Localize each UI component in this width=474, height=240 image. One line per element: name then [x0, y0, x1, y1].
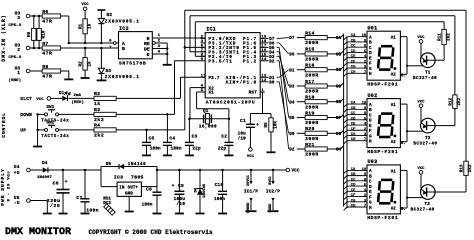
svg-text:CF: CF — [351, 128, 356, 132]
svg-text:C1: C1 — [240, 118, 246, 124]
svg-text:D0: D0 — [269, 81, 275, 85]
svg-text:8VCC: 8VCC — [269, 175, 273, 184]
svg-text:T1: T1 — [425, 70, 431, 75]
svg-text:CD: CD — [336, 86, 342, 90]
svg-text:R21: R21 — [305, 142, 315, 148]
svg-text:VCC: VCC — [247, 155, 255, 159]
svg-text:1N4007: 1N4007 — [37, 176, 53, 180]
svg-text:PWR SUPPLY: PWR SUPPLY — [0, 168, 6, 206]
svg-text:U03: U03 — [368, 159, 378, 165]
svg-text:AIN+/P1.0: AIN+/P1.0 — [226, 81, 257, 86]
svg-text:-U: -U — [14, 200, 20, 206]
svg-text:D1: D1 — [59, 92, 65, 96]
svg-text:D5: D5 — [289, 117, 295, 121]
svg-text:C4: C4 — [169, 135, 175, 141]
svg-text:R10: R10 — [43, 30, 47, 38]
svg-text:CF: CF — [351, 194, 356, 198]
svg-text:2k2: 2k2 — [468, 164, 473, 172]
svg-text:CC: CC — [351, 112, 356, 116]
svg-text:10k: 10k — [274, 121, 279, 129]
svg-text:CPK-3: CPK-3 — [9, 24, 22, 28]
svg-text:R6: R6 — [42, 9, 48, 15]
svg-text:IC3: IC3 — [114, 174, 124, 180]
svg-text:R18: R18 — [305, 95, 315, 101]
svg-text:6: 6 — [109, 40, 112, 44]
svg-text:CH: CH — [351, 205, 356, 209]
svg-text:R4: R4 — [94, 123, 100, 129]
svg-text:CC: CC — [336, 69, 342, 73]
svg-text:A2: A2 — [391, 141, 397, 145]
svg-text:+: + — [172, 184, 175, 189]
svg-text:IC1: IC1 — [206, 27, 216, 33]
svg-text:D1: D1 — [269, 77, 275, 81]
svg-text:RST: RST — [249, 91, 258, 96]
svg-text:SLCT: SLCT — [20, 96, 32, 102]
svg-text:100n: 100n — [142, 203, 153, 208]
svg-text:100n: 100n — [171, 147, 182, 152]
svg-text:UP: UP — [20, 128, 26, 134]
svg-text:200R: 200R — [305, 136, 319, 142]
svg-text:SW1: SW1 — [47, 106, 55, 110]
svg-text:/10: /10 — [176, 201, 185, 207]
svg-text:CD: CD — [351, 50, 356, 54]
svg-text:100n: 100n — [150, 147, 161, 152]
svg-text:R2: R2 — [94, 91, 100, 97]
svg-text:C6: C6 — [53, 181, 59, 187]
svg-text:GND: GND — [125, 193, 133, 197]
svg-text:D3: D3 — [289, 86, 295, 90]
svg-text:22p: 22p — [218, 147, 227, 152]
svg-text:D: D — [147, 52, 150, 58]
svg-text:CG: CG — [351, 66, 356, 70]
svg-text:CE: CE — [351, 189, 356, 193]
svg-text:200R: 200R — [305, 72, 319, 78]
svg-text:9: 9 — [201, 58, 204, 62]
svg-text:A2: A2 — [391, 207, 397, 211]
svg-text:15: 15 — [261, 53, 267, 57]
svg-text:1N4148: 1N4148 — [128, 163, 146, 167]
svg-text:D5: D5 — [106, 162, 112, 167]
svg-text:200R: 200R — [305, 57, 319, 63]
svg-text:20VCC: 20VCC — [247, 174, 251, 186]
svg-text:CH: CH — [336, 149, 342, 153]
svg-text:DOWN: DOWN — [20, 112, 32, 118]
svg-text:CE: CE — [351, 55, 356, 59]
svg-text:R20: R20 — [305, 126, 315, 132]
svg-text:10: 10 — [362, 102, 367, 106]
svg-text:16,000: 16,000 — [199, 123, 217, 129]
svg-text:R12: R12 — [449, 97, 453, 105]
svg-text:CE: CE — [351, 123, 356, 127]
svg-text:2mA: 2mA — [74, 94, 82, 98]
svg-text:C10: C10 — [215, 182, 224, 188]
svg-text:+: + — [256, 123, 259, 128]
svg-text:CH: CH — [351, 71, 356, 75]
svg-text:BC327-40: BC327-40 — [413, 77, 437, 81]
svg-text:A1: A1 — [391, 170, 397, 174]
svg-text:200R: 200R — [305, 120, 319, 126]
svg-text:IC2/P: IC2/P — [266, 189, 280, 195]
svg-text:D6: D6 — [194, 187, 198, 192]
svg-text:14: 14 — [261, 58, 267, 62]
svg-text:R8: R8 — [42, 64, 48, 70]
svg-text:1k: 1k — [88, 61, 93, 67]
svg-text:U4: U4 — [14, 164, 20, 170]
svg-text:3: 3 — [201, 40, 204, 44]
svg-text:D6: D6 — [269, 43, 275, 47]
svg-text:CC: CC — [351, 178, 356, 182]
svg-text:CD: CD — [351, 184, 356, 188]
svg-text:2: 2 — [17, 47, 20, 53]
svg-text:T3: T3 — [424, 202, 430, 207]
svg-text:5: 5 — [201, 89, 204, 93]
svg-text:CG: CG — [336, 133, 342, 137]
svg-text:+: + — [65, 180, 68, 185]
svg-text:P3.7: P3.7 — [208, 76, 219, 81]
svg-text:COPYRIGHT © 2000 CHD Elektrose: COPYRIGHT © 2000 CHD Elektroservis — [89, 229, 213, 236]
svg-text:C9: C9 — [178, 183, 184, 189]
svg-text:D2: D2 — [107, 13, 113, 18]
svg-text:IN: IN — [119, 186, 125, 190]
svg-text:RE: RE — [144, 41, 150, 47]
svg-text:D3: D3 — [269, 56, 275, 60]
svg-text:U01: U01 — [368, 25, 378, 31]
svg-text:C8: C8 — [146, 186, 152, 192]
svg-text:200R: 200R — [305, 40, 319, 46]
svg-text:100n: 100n — [86, 207, 98, 213]
svg-text:C7: C7 — [76, 195, 82, 201]
svg-text:CA: CA — [351, 34, 356, 38]
svg-text:Q1: Q1 — [203, 109, 209, 114]
svg-text:3: 3 — [17, 15, 20, 21]
svg-text:A1: A1 — [391, 104, 397, 108]
svg-text:2k2: 2k2 — [446, 33, 451, 41]
svg-text:D5: D5 — [269, 47, 275, 51]
svg-text:C3: C3 — [192, 133, 198, 139]
svg-text:CF: CF — [336, 117, 342, 121]
svg-text:A1: A1 — [391, 37, 397, 41]
svg-text:B: B — [122, 46, 125, 52]
svg-text:VCC: VCC — [291, 169, 299, 174]
svg-text:HS1: HS1 — [103, 197, 111, 201]
svg-text:10: 10 — [362, 168, 367, 172]
svg-text:D0: D0 — [289, 133, 295, 137]
svg-text:6.: 6. — [401, 75, 406, 79]
svg-text:CA: CA — [351, 168, 356, 172]
svg-text:ZX83V005.1: ZX83V005.1 — [105, 74, 140, 80]
svg-text:OUT+: OUT+ — [128, 186, 139, 190]
svg-text:HDSP-F201: HDSP-F201 — [367, 215, 398, 221]
svg-text:TACTS-24x: TACTS-24x — [41, 135, 69, 139]
svg-text:R17: R17 — [305, 79, 315, 85]
svg-text:200R: 200R — [305, 89, 319, 95]
svg-text:C5: C5 — [149, 135, 155, 141]
svg-text:R13: R13 — [460, 164, 464, 172]
svg-text:X1: X1 — [208, 91, 214, 96]
svg-text:R15: R15 — [305, 47, 315, 53]
svg-text:IC1/P: IC1/P — [244, 189, 258, 195]
svg-text:(RED): (RED) — [72, 100, 85, 105]
svg-text:2k2: 2k2 — [94, 117, 104, 123]
svg-text:C2: C2 — [221, 133, 227, 139]
svg-text:6.: 6. — [401, 208, 406, 212]
svg-text:U5: U5 — [14, 195, 20, 201]
svg-text:2k2: 2k2 — [457, 97, 462, 105]
svg-text:SW2: SW2 — [47, 121, 55, 125]
svg-text:R3: R3 — [94, 107, 100, 113]
svg-text:T2: T2 — [425, 136, 431, 141]
svg-text:P3.5/T1: P3.5/T1 — [208, 60, 232, 65]
svg-text:DE: DE — [144, 46, 150, 52]
svg-text:AT89C2051-20PU: AT89C2051-20PU — [206, 99, 256, 105]
svg-text:16: 16 — [261, 49, 267, 53]
svg-text:CA: CA — [351, 102, 356, 106]
svg-text:HDSP-F201: HDSP-F201 — [367, 149, 398, 155]
svg-text:+U: +U — [14, 170, 20, 176]
svg-text:2: 2 — [201, 36, 204, 40]
svg-text:7: 7 — [201, 49, 204, 53]
svg-text:H: H — [369, 206, 372, 211]
svg-text:D2: D2 — [269, 60, 275, 64]
svg-text:D3: D3 — [106, 69, 112, 74]
svg-text:CPK-3: CPK-3 — [9, 56, 22, 60]
svg-text:CA: CA — [336, 37, 342, 41]
svg-text:R5: R5 — [265, 122, 269, 128]
svg-text:7805: 7805 — [131, 174, 144, 180]
svg-text:R7: R7 — [42, 41, 48, 47]
svg-text:D4: D4 — [42, 161, 48, 166]
svg-text:R2: R2 — [79, 61, 83, 67]
svg-text:H: H — [369, 72, 372, 77]
svg-text:1: 1 — [17, 70, 20, 76]
svg-text:1k: 1k — [88, 23, 93, 29]
svg-text:10: 10 — [362, 34, 367, 38]
svg-text:CG: CG — [351, 199, 356, 203]
svg-text:BC327-40: BC327-40 — [413, 142, 437, 146]
svg-text:U02: U02 — [368, 93, 378, 99]
svg-text:/25: /25 — [50, 203, 60, 209]
svg-text:D2: D2 — [289, 149, 295, 153]
svg-text:/10: /10 — [238, 137, 246, 142]
svg-text:2k2: 2k2 — [94, 133, 104, 139]
svg-text:R14: R14 — [305, 30, 315, 36]
svg-text:D4: D4 — [269, 51, 275, 55]
svg-text:7: 7 — [109, 46, 112, 50]
svg-text:100n: 100n — [214, 197, 225, 202]
svg-text:200R: 200R — [305, 152, 319, 158]
svg-text:ZX83V005.1: ZX83V005.1 — [105, 18, 140, 24]
svg-text:D6: D6 — [289, 54, 295, 58]
svg-text:6.: 6. — [401, 142, 406, 146]
svg-text:47R: 47R — [42, 74, 52, 80]
svg-text:CD: CD — [351, 117, 356, 121]
svg-text:R16: R16 — [305, 63, 315, 69]
svg-text:IC2: IC2 — [119, 26, 129, 32]
svg-text:DMX MONITOR: DMX MONITOR — [5, 227, 71, 238]
svg-text:CONTROL: CONTROL — [1, 112, 7, 137]
svg-text:CE: CE — [336, 101, 342, 105]
svg-text:8: 8 — [201, 53, 204, 57]
svg-text:CB: CB — [351, 173, 356, 177]
svg-text:TACTS-24x: TACTS-24x — [41, 119, 69, 123]
svg-text:BC327-40: BC327-40 — [411, 209, 435, 213]
svg-text:22p: 22p — [192, 147, 201, 152]
svg-text:1N4148: 1N4148 — [203, 183, 207, 198]
svg-text:200R: 200R — [305, 104, 319, 110]
svg-text:8 - 20 Vdc: 8 - 20 Vdc — [7, 170, 12, 201]
svg-text:H: H — [369, 140, 372, 145]
svg-text:R19: R19 — [305, 110, 315, 116]
svg-text:P1.2: P1.2 — [243, 60, 257, 65]
svg-text:11: 11 — [201, 74, 207, 78]
svg-text:D4: D4 — [289, 101, 295, 105]
svg-text:DMX-IN (XLR): DMX-IN (XLR) — [1, 14, 7, 61]
svg-text:CG: CG — [351, 133, 356, 137]
svg-text:R1: R1 — [79, 23, 83, 29]
svg-text:A2: A2 — [391, 74, 397, 78]
svg-text:VCC: VCC — [36, 98, 44, 102]
svg-text:CB: CB — [351, 39, 356, 43]
svg-text:47R: 47R — [42, 51, 52, 57]
svg-text:1k: 1k — [94, 101, 101, 107]
svg-text:R9: R9 — [28, 31, 32, 37]
svg-text:CB: CB — [336, 53, 342, 57]
svg-text:CH: CH — [351, 138, 356, 142]
svg-text:SN75176B: SN75176B — [119, 60, 146, 66]
svg-text:CB: CB — [351, 107, 356, 111]
svg-text:R11: R11 — [439, 33, 443, 41]
svg-text:CF: CF — [351, 60, 356, 64]
svg-text:(GND): (GND) — [9, 78, 22, 83]
svg-text:D7: D7 — [289, 37, 295, 41]
svg-text:CC: CC — [351, 45, 356, 49]
svg-text:47R: 47R — [42, 19, 52, 25]
svg-text:D7: D7 — [269, 38, 275, 42]
svg-text:HDSP-F201: HDSP-F201 — [367, 81, 398, 87]
svg-text:D1: D1 — [289, 69, 295, 73]
